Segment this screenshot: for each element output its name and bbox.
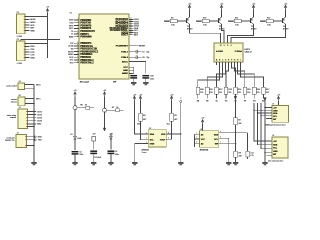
- svg-text:6: 6: [231, 45, 232, 47]
- svg-text:R3: R3: [239, 153, 241, 155]
- svg-text:220: 220: [266, 92, 269, 94]
- wire to R4: [139, 101, 141, 113]
- resistor R4 4.7K: [139, 113, 143, 121]
- svg-text:15: 15: [77, 45, 79, 47]
- ground at bottom of left bus: [31, 162, 36, 165]
- U1 left pin tags PB: [68, 43, 75, 65]
- resistor R17 220 segment DP: [262, 87, 266, 94]
- wire power to T3 emitter: [253, 10, 255, 17]
- bus vertical net D: [265, 101, 272, 153]
- U2 right pin stubs: [166, 134, 170, 139]
- svg-text:TXD: TXD: [70, 23, 75, 25]
- svg-text:19: 19: [77, 56, 79, 58]
- wire LS1 down to D1: [74, 109, 76, 136]
- U1 right net labels PC: [134, 19, 140, 36]
- svg-text:100n: 100n: [115, 154, 119, 156]
- svg-text:TXD: TXD: [38, 140, 42, 142]
- svg-text:C8: C8: [142, 57, 144, 59]
- wire base of T4: [273, 20, 282, 22]
- wire VCC rail left column: [47, 13, 49, 58]
- svg-text:OUT3: OUT3: [37, 118, 42, 120]
- connector J6: [272, 137, 288, 158]
- wire C5 to ground: [74, 154, 76, 162]
- connector P1 pins: [24, 16, 30, 31]
- svg-text:220: 220: [238, 92, 241, 94]
- wire U2 VDD rail: [134, 101, 144, 134]
- svg-text:14: 14: [77, 42, 79, 44]
- bus vertical net B: [258, 103, 273, 145]
- svg-text:16: 16: [77, 47, 79, 49]
- svg-text:VCC: VCC: [123, 67, 128, 69]
- wire base of T3: [241, 20, 250, 22]
- wire P1 pin1 to VCC rail: [30, 16, 48, 18]
- wire power to LS1: [74, 96, 76, 105]
- svg-text:XTAL1: XTAL1: [121, 50, 129, 53]
- svg-text:17: 17: [77, 50, 79, 52]
- resistor R5 4.7K: [170, 113, 174, 121]
- svg-text:220: 220: [257, 92, 260, 94]
- svg-text:SDA: SDA: [273, 143, 278, 146]
- svg-text:4: 4: [78, 24, 79, 26]
- wire to R5: [171, 101, 173, 113]
- svg-text:OC1A: OC1A: [68, 45, 74, 48]
- ground below U2: [132, 162, 137, 165]
- svg-text:J3: J3: [19, 107, 21, 109]
- U1 left pin stubs PD: [74, 20, 79, 37]
- wire R4 to U2 SDA: [140, 121, 144, 139]
- resistor R6: [86, 106, 90, 109]
- buzzer LS1: [73, 106, 77, 110]
- svg-text:SCK: SCK: [30, 25, 35, 27]
- resistor R10 220 segment A: [196, 87, 200, 94]
- svg-text:OUT2: OUT2: [37, 114, 42, 116]
- svg-text:27: 27: [130, 27, 132, 29]
- svg-text:220: 220: [228, 92, 231, 94]
- svg-text:C3 100nF: C3 100nF: [93, 157, 102, 159]
- wire D4 to C4: [110, 139, 112, 150]
- bus vertical net C: [261, 103, 272, 149]
- U3 left pin stubs: [194, 134, 199, 143]
- U1 interior pin names PD: [80, 19, 95, 39]
- svg-text:OUT1: OUT1: [37, 111, 42, 113]
- svg-text:ADC7: ADC7: [121, 34, 128, 37]
- U1 right pin stubs PC: [129, 19, 134, 34]
- svg-text:outputs: outputs: [10, 116, 16, 119]
- svg-text:XTAL2: XTAL2: [121, 56, 129, 59]
- svg-text:18: 18: [77, 53, 79, 55]
- ground bus left column: [33, 88, 35, 162]
- resistor R9 1.0K: [170, 19, 177, 22]
- wire base of T1: [177, 20, 186, 22]
- svg-text:C7: C7: [142, 51, 144, 53]
- wire J6 GND drop to ground: [264, 153, 266, 162]
- U1 left pin stubs PB: [74, 43, 79, 63]
- J6 interior text: [273, 141, 278, 156]
- resistor R16 220 segment G: [252, 87, 256, 94]
- U1 xtal pin with capacitor C8: [129, 56, 136, 58]
- U1 left pin numbers PB: [77, 42, 79, 64]
- svg-text:6: 6: [78, 30, 79, 32]
- connector J3: [18, 109, 28, 129]
- svg-text:24: 24: [130, 20, 132, 22]
- display DISP1 4-digit 7-seg: [214, 43, 243, 62]
- ground below C9: [131, 82, 136, 85]
- wire J4 pin4 to gnd bus: [27, 144, 35, 146]
- svg-text:10: 10: [77, 61, 79, 63]
- svg-text:ATmega8: ATmega8: [80, 80, 90, 83]
- svg-text:TOUT: TOUT: [160, 140, 166, 142]
- svg-text:25: 25: [130, 22, 132, 24]
- svg-text:R7: R7: [112, 107, 114, 109]
- power flag above T1: [188, 3, 192, 9]
- wire C3 to ground: [93, 153, 95, 162]
- svg-text:VDD: VDD: [161, 134, 166, 136]
- wire below segment resistor DP: [263, 94, 265, 99]
- wire T4 collector to display pin 6: [231, 24, 286, 43]
- svg-text:R15: R15: [247, 89, 250, 91]
- svg-text:R2: R2: [238, 120, 240, 122]
- U1 xtal pin with capacitor C7: [129, 51, 136, 53]
- wire power pins down to C9: [133, 67, 135, 73]
- diode D1: [74, 136, 77, 139]
- svg-text:8: 8: [227, 45, 228, 47]
- connector J5 pin stubs: [266, 107, 272, 118]
- resistor R2 10K: [234, 118, 238, 125]
- transistor T2 BC807: [219, 17, 222, 24]
- wire R3 to ground: [235, 157, 237, 161]
- transistor T3 BC807: [251, 17, 254, 24]
- svg-text:RESET: RESET: [139, 46, 146, 48]
- power flag above T3: [252, 3, 256, 9]
- wire X1 to C3: [93, 141, 95, 150]
- svg-text:22p: 22p: [146, 51, 149, 53]
- power flag for R4 pullup: [139, 94, 143, 100]
- wire power to D2: [104, 96, 106, 108]
- svg-text:R10: R10: [200, 89, 203, 91]
- wire D1 to C5: [74, 139, 76, 150]
- svg-text:J4: J4: [17, 133, 19, 135]
- wire below segment resistor F: [244, 94, 246, 99]
- svg-text:R17: R17: [266, 89, 269, 91]
- wire T1 collector to display pin 12: [190, 24, 221, 43]
- svg-text:2-wire: 2-wire: [142, 152, 147, 154]
- wire R7 onward: [119, 109, 123, 111]
- port arrow end of D2 column: [103, 128, 106, 131]
- svg-text:MOSI: MOSI: [68, 51, 74, 53]
- wire R5 to U2 SCL: [170, 121, 171, 139]
- power flag above D2: [103, 90, 107, 96]
- svg-text:GND: GND: [150, 144, 155, 146]
- resistor R11 220 segment B: [205, 87, 209, 94]
- U1 AVCC wire to decoupling: [129, 62, 146, 74]
- svg-text:4K7: 4K7: [174, 119, 177, 121]
- wire SCL drop to ground: [228, 138, 230, 162]
- svg-text:4K7: 4K7: [143, 119, 146, 121]
- connector J4 pins: [25, 136, 35, 140]
- U1 left pin tags PD: [69, 20, 75, 39]
- power flag above T4: [284, 3, 288, 9]
- connector J4: [16, 135, 27, 148]
- wire U2 TOUT to rail: [170, 133, 181, 135]
- svg-text:AVCC: AVCC: [122, 60, 128, 63]
- svg-text:SDA: SDA: [150, 133, 155, 136]
- wire TOUT rail down to ground: [180, 103, 182, 162]
- ground below TOUT rail: [178, 162, 183, 165]
- resistor R10 1.0K: [202, 19, 209, 22]
- svg-text:9: 9: [224, 45, 225, 47]
- resistor R7: [116, 109, 120, 112]
- svg-text:GND: GND: [123, 70, 128, 72]
- connector P1: [17, 14, 26, 34]
- resistor R14 220 segment E: [234, 87, 238, 94]
- capacitor C10 100n: [142, 76, 149, 78]
- U2 left pin stubs: [144, 134, 148, 144]
- U3 SCL wire right: [219, 137, 229, 139]
- wire P2 pin1 to VCC rail: [30, 43, 48, 45]
- wire SDA drop to C12: [247, 133, 249, 152]
- U1 interior pin names PC: [109, 18, 128, 36]
- wire P2 top to row bus: [21, 40, 60, 41]
- svg-text:GND: GND: [273, 151, 278, 153]
- svg-text:AT24C04: AT24C04: [200, 148, 209, 151]
- power flag +5V top-left rail: [46, 7, 50, 13]
- diode D4: [110, 136, 113, 139]
- port arrow on column 5: [234, 96, 237, 99]
- svg-text:CTS: CTS: [30, 55, 35, 57]
- ground below SCL drop: [226, 162, 231, 165]
- wire D2 down: [104, 112, 106, 128]
- U3 WP wire right: [219, 143, 236, 145]
- svg-text:28: 28: [130, 29, 132, 31]
- wire T3 collector to display pin 8: [228, 24, 254, 43]
- port arrows and labels at J4: [35, 136, 37, 138]
- capacitor C4 100nF: [108, 151, 115, 153]
- svg-text:DISP1: DISP1: [245, 49, 251, 51]
- port arrow on column 8: [264, 98, 267, 101]
- display bottom extra stub: [216, 62, 218, 65]
- svg-text:U2: U2: [149, 128, 151, 130]
- connector P2 pins: [24, 43, 30, 58]
- svg-text:RXD: RXD: [38, 137, 43, 139]
- svg-text:I2C extension bus: I2C extension bus: [268, 160, 283, 163]
- wire power to T2 emitter: [221, 10, 223, 17]
- svg-text:R12: R12: [219, 89, 222, 91]
- wire D2 to resistor R7: [107, 109, 116, 111]
- transistor T4 BC807: [283, 17, 286, 24]
- net labels at P1: [30, 19, 36, 32]
- svg-text:MISO: MISO: [68, 54, 74, 56]
- button S1: [18, 83, 25, 90]
- svg-text:GND: GND: [30, 30, 35, 32]
- svg-text:GND: GND: [273, 110, 278, 112]
- wire C4 to ground: [110, 153, 112, 162]
- svg-text:GND: GND: [30, 57, 35, 59]
- wire S2 bottom to gnd bus: [25, 103, 34, 105]
- svg-text:CA56-12: CA56-12: [245, 51, 252, 54]
- resistor R13 220 segment D: [224, 87, 228, 94]
- svg-text:220: 220: [200, 92, 203, 94]
- ground below J6: [262, 162, 267, 165]
- J5 feed stubs from bus: [254, 109, 272, 111]
- svg-text:3: 3: [78, 21, 79, 23]
- resistor R11 1.0K: [234, 19, 241, 22]
- U3 SDA wire right: [219, 132, 248, 134]
- svg-text:J5: J5: [272, 103, 274, 105]
- connector J3 pins: [26, 111, 36, 124]
- wire power into J5: [277, 101, 279, 106]
- svg-text:PB7/XTAL2: PB7/XTAL2: [80, 62, 94, 65]
- svg-text:MISO: MISO: [30, 22, 36, 24]
- LED D2: [103, 108, 107, 112]
- svg-text:SDA: SDA: [273, 112, 278, 115]
- svg-text:RXD: RXD: [30, 46, 35, 48]
- svg-text:R14: R14: [238, 89, 241, 91]
- svg-text:23: 23: [130, 18, 132, 20]
- svg-text:R16: R16: [257, 89, 260, 91]
- capacitor C12: [246, 151, 249, 157]
- svg-text:R12: R12: [267, 17, 270, 19]
- svg-text:R6: R6: [80, 105, 82, 107]
- wire below segment resistor C: [216, 94, 218, 99]
- resistor R12 220 segment C: [215, 87, 219, 94]
- wire U2 GND pin to ground: [135, 143, 145, 161]
- connector J5: [272, 106, 289, 123]
- svg-text:AREF: AREF: [122, 72, 129, 75]
- svg-text:4148: 4148: [78, 138, 82, 140]
- power flag for R5 pullup: [170, 94, 174, 100]
- capacitor C5 100nF: [72, 152, 79, 154]
- ground below C10: [143, 82, 148, 85]
- svg-text:2: 2: [78, 19, 79, 21]
- junction dots on ground bus: [33, 103, 34, 104]
- resistor R15 220 segment F: [243, 87, 247, 94]
- button S2: [18, 97, 25, 106]
- svg-text:PC6/RESET: PC6/RESET: [116, 46, 129, 48]
- wire LS1 to resistor R6: [77, 107, 86, 109]
- svg-text:R9: R9: [171, 17, 173, 19]
- crystal X1: [92, 136, 96, 141]
- connector J6 pin stubs: [266, 155, 272, 157]
- capacitor C9 100n: [130, 76, 137, 78]
- wire S1 bottom to gnd bus: [25, 87, 35, 89]
- svg-text:R11: R11: [210, 89, 213, 91]
- svg-text:J6: J6: [272, 135, 274, 137]
- wire power to T4 emitter: [285, 10, 287, 17]
- svg-text:DTR: DTR: [30, 52, 35, 54]
- ground below C5: [72, 162, 77, 165]
- capacitor C3 100nF: [90, 151, 97, 153]
- sheet background: [0, 0, 300, 170]
- svg-text:GND: GND: [37, 124, 42, 126]
- connector P2: [17, 41, 26, 61]
- svg-text:PD6/AIN0: PD6/AIN0: [80, 36, 92, 39]
- wire base of T2: [209, 20, 218, 22]
- svg-text:MOSI: MOSI: [30, 19, 36, 21]
- svg-text:S1: S1: [19, 81, 21, 83]
- wire column 5 down to R2: [234, 100, 236, 118]
- ground below C4: [108, 162, 113, 165]
- IC U2 DS1621: [148, 130, 166, 147]
- wire S1 top with INT0 label: [25, 84, 35, 86]
- svg-text:R13: R13: [228, 89, 231, 91]
- svg-text:R5: R5: [174, 115, 176, 117]
- transistor T1 BC807: [187, 17, 190, 24]
- IC U1 ATmega8: [79, 14, 129, 79]
- U1 left pin numbers PD: [77, 19, 79, 38]
- bus vertical net A: [254, 103, 272, 141]
- display top pin numbers: [220, 45, 232, 47]
- svg-text:12: 12: [220, 45, 222, 47]
- power flag at J5: [277, 95, 281, 101]
- J5 interior text: [273, 108, 278, 121]
- svg-text:RXD: RXD: [69, 20, 74, 22]
- U1 interior pin names PB: [80, 42, 99, 65]
- power flag above T2: [220, 3, 224, 9]
- IC U3 AT24C04: [200, 131, 219, 147]
- svg-text:SCK: SCK: [69, 57, 74, 59]
- wire J3 pin6 to gnd bus: [28, 126, 35, 128]
- U1 right pin numbers PC: [130, 18, 132, 35]
- svg-text:22: 22: [130, 33, 132, 35]
- svg-text:R4: R4: [143, 115, 145, 117]
- svg-text:22p: 22p: [146, 57, 149, 59]
- svg-text:U3: U3: [200, 129, 202, 131]
- wire power to T1 emitter: [189, 10, 191, 17]
- U1 reset pin with RESET net label: [129, 45, 138, 47]
- svg-text:5: 5: [78, 27, 79, 29]
- svg-text:A-DIG1: A-DIG1: [216, 50, 224, 53]
- svg-text:R10: R10: [203, 17, 206, 19]
- svg-text:USB/asynchronous iface: USB/asynchronous iface: [265, 124, 286, 127]
- svg-text:CON6: CON6: [17, 63, 22, 65]
- wire below segment resistor E: [234, 94, 236, 99]
- svg-text:12: 12: [77, 35, 79, 37]
- wire S2 top with INT1 label: [25, 98, 34, 100]
- svg-text:19: 19: [130, 31, 132, 33]
- svg-text:9: 9: [78, 59, 79, 61]
- svg-text:R11: R11: [235, 17, 238, 19]
- svg-text:C-DIG4: C-DIG4: [235, 50, 243, 53]
- svg-text:VCC: VCC: [201, 139, 206, 141]
- net labels at P2: [30, 46, 35, 59]
- power flag for U2 VDD: [133, 94, 137, 100]
- wire joining U3 left pins: [193, 134, 195, 147]
- svg-text:220: 220: [247, 92, 250, 94]
- wire below segment resistor G: [253, 94, 255, 99]
- net labels at J3: [37, 111, 43, 125]
- power flag above LS1: [73, 90, 77, 96]
- ground below R3: [233, 162, 238, 165]
- svg-text:closure: closure: [11, 100, 17, 103]
- svg-text:D1: D1: [70, 134, 72, 136]
- port circle TOUT rail: [180, 100, 182, 102]
- svg-text:SCL: SCL: [167, 124, 171, 126]
- svg-text:100n: 100n: [150, 78, 154, 80]
- svg-text:220: 220: [210, 92, 213, 94]
- svg-text:TXD: TXD: [30, 49, 35, 51]
- resistor R12 1.0K: [266, 19, 273, 22]
- U1 power pin stubs: [129, 67, 134, 73]
- wire below segment resistor D: [225, 94, 227, 99]
- wire T2 collector to display pin 9: [222, 24, 225, 43]
- svg-text:C12: C12: [250, 152, 253, 154]
- svg-text:S2: S2: [19, 95, 21, 97]
- resistor R3 10K: [234, 151, 238, 157]
- svg-text:4.7n: 4.7n: [250, 155, 253, 157]
- wire power to U3: [202, 124, 204, 131]
- wire below segment resistor B: [206, 94, 208, 99]
- svg-text:26: 26: [130, 25, 132, 27]
